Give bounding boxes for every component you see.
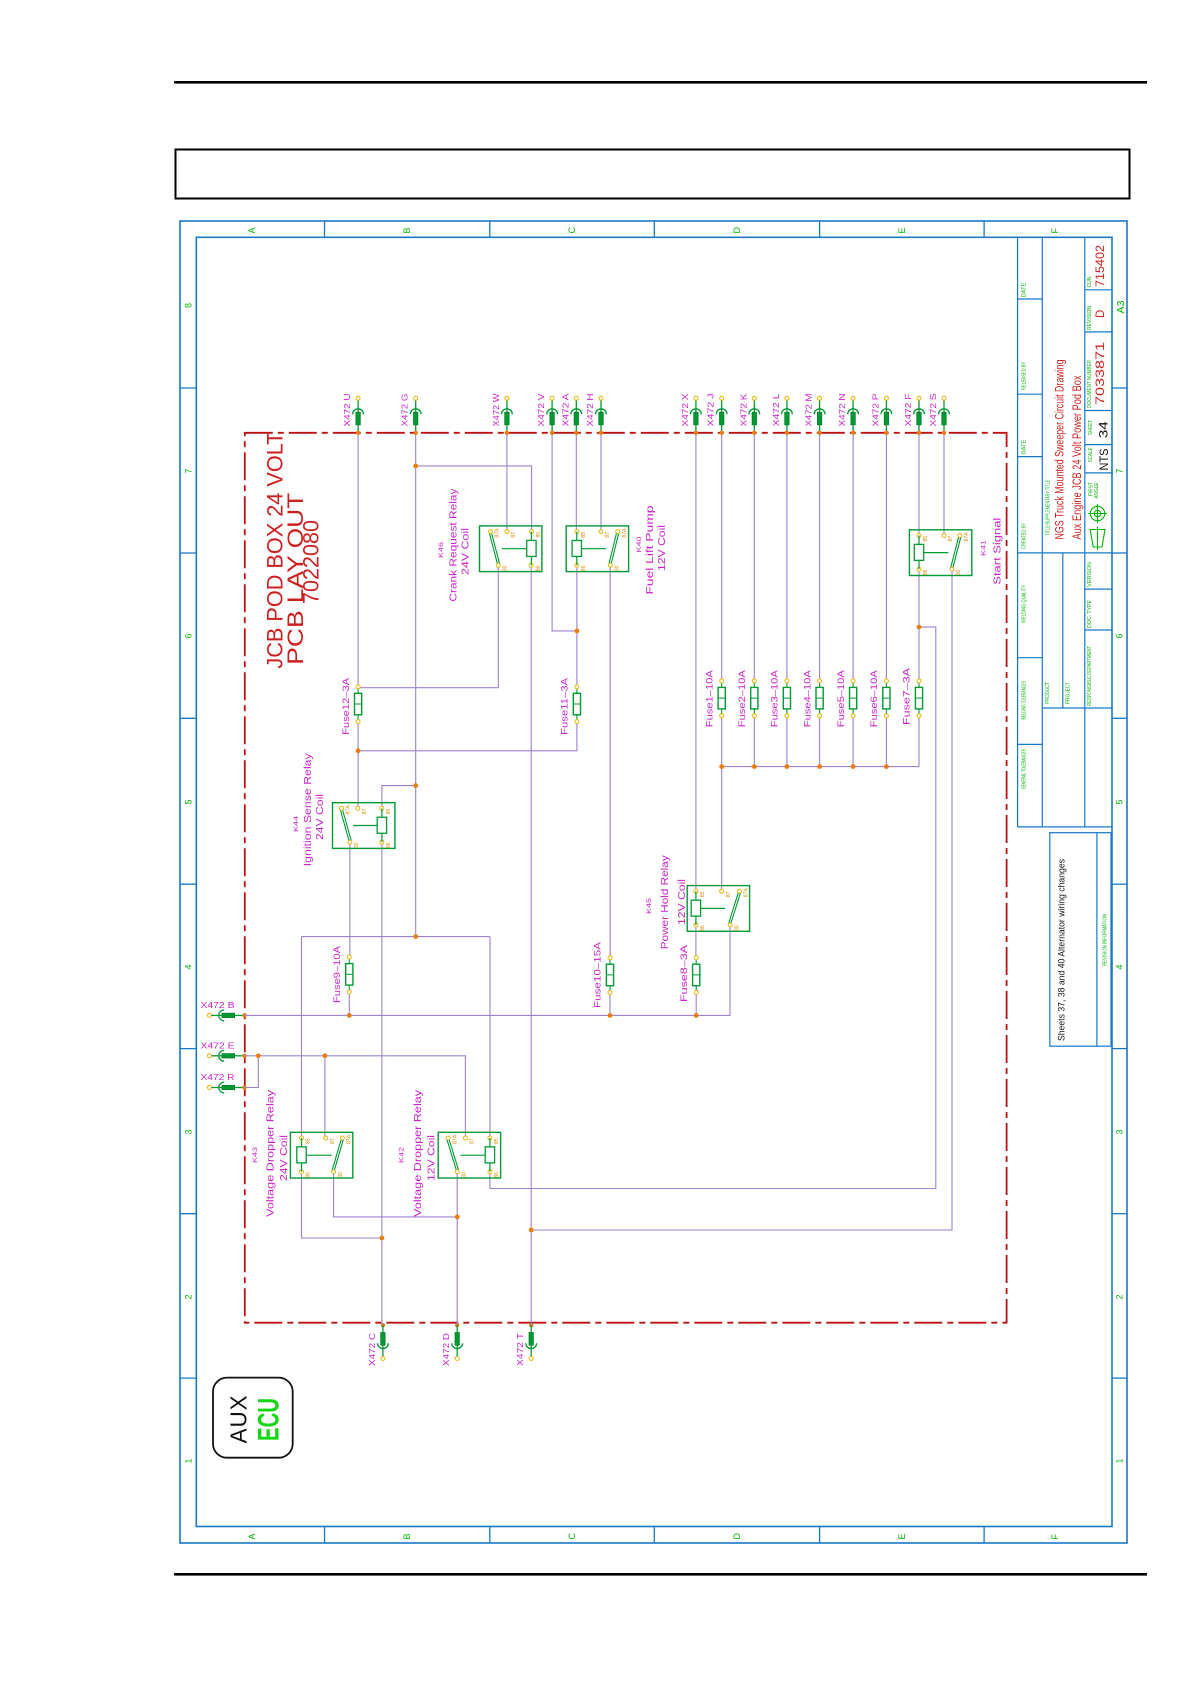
- svg-text:87: 87: [511, 532, 517, 538]
- svg-text:87: 87: [330, 1138, 336, 1144]
- connector X472 V: [537, 393, 557, 435]
- K42 contact: [447, 1140, 456, 1170]
- wire K43 pin 86 to X472 C net: [302, 1173, 382, 1239]
- svg-text:34: 34: [1096, 421, 1110, 438]
- connector X472 X: [681, 393, 701, 435]
- wire K45 pin 86 to Fuse8 top: [695, 925, 697, 958]
- wire X472 G vertical run: [415, 435, 417, 937]
- svg-text:Start Signal: Start Signal: [993, 518, 1004, 585]
- wire K41 pin 86 node to K42 pin 86: [490, 627, 936, 1188]
- wire node E tie to X472 R: [245, 1056, 259, 1088]
- wire node G down to K42 pin 85: [489, 937, 491, 1139]
- svg-text:X472 B: X472 B: [201, 1001, 235, 1010]
- connector X472 F: [904, 393, 924, 435]
- K44 contact: [341, 810, 349, 840]
- connector X472 D: [442, 1323, 462, 1366]
- K43 pins 85 87 87A 86 30: [300, 1136, 304, 1140]
- connector X472 B: [201, 1001, 247, 1021]
- svg-text:K43: K43: [252, 1146, 259, 1163]
- svg-text:K44: K44: [293, 815, 300, 832]
- svg-text:12V Coil: 12V Coil: [427, 1135, 438, 1181]
- svg-text:Voltage Dropper Relay: Voltage Dropper Relay: [413, 1090, 424, 1217]
- svg-text:3: 3: [184, 1129, 194, 1134]
- svg-text:Fuse2–10A: Fuse2–10A: [737, 669, 748, 727]
- svg-text:X472 X: X472 X: [681, 393, 690, 427]
- connector X472 N: [838, 393, 858, 435]
- svg-text:Ignition Sense Relay: Ignition Sense Relay: [303, 753, 314, 866]
- svg-text:5: 5: [184, 799, 194, 804]
- svg-text:87: 87: [726, 891, 732, 897]
- wire X472 A to K40 pin 85: [575, 435, 577, 532]
- fuse Fuse3 10A: [770, 669, 791, 727]
- svg-text:7: 7: [1115, 468, 1125, 473]
- outer border frame: [180, 221, 1127, 1543]
- wire K46 pin 30 to Fuse12 top: [358, 565, 498, 688]
- K40 coil: [576, 532, 578, 566]
- wire node G down to K43 pin 85: [301, 937, 303, 1139]
- svg-text:Fuse12–3A: Fuse12–3A: [341, 677, 352, 735]
- svg-text:X472 F: X472 F: [904, 393, 913, 426]
- svg-text:30: 30: [338, 1172, 344, 1178]
- wire K46 pin 86 down to X472 T: [530, 565, 532, 1325]
- relay K40 box: [566, 526, 628, 572]
- first angle projection symbol: [1088, 504, 1107, 550]
- svg-text:X472 A: X472 A: [561, 393, 570, 427]
- fuse Fuse8 3A: [679, 944, 700, 1002]
- svg-text:X472 V: X472 V: [537, 393, 546, 427]
- wire Fuse5 bottom to bus: [852, 713, 854, 766]
- svg-text:PRODUCT: PRODUCT: [1045, 681, 1051, 704]
- svg-text:30: 30: [615, 565, 621, 571]
- wire X472 F to K41 pin 85: [918, 435, 920, 536]
- wire X472 N to Fuse5: [852, 435, 854, 681]
- relay K42 box: [438, 1132, 500, 1178]
- svg-text:85: 85: [923, 536, 929, 542]
- wire node G horizontal distribution: [302, 936, 491, 938]
- K45 contact: [729, 893, 738, 923]
- svg-text:X472 E: X472 E: [201, 1041, 235, 1050]
- connector X472 R: [201, 1073, 247, 1093]
- wire X472 L to Fuse3: [786, 435, 788, 681]
- svg-text:85: 85: [581, 532, 587, 538]
- svg-text:85: 85: [536, 532, 542, 538]
- svg-text:Fuse1–10A: Fuse1–10A: [704, 669, 715, 727]
- svg-text:F: F: [1050, 228, 1060, 234]
- svg-text:Sheets 37, 38 and 40 Alternato: Sheets 37, 38 and 40 Alternator wiring c…: [1057, 859, 1067, 1041]
- connector X472 T: [516, 1323, 536, 1366]
- svg-text:86: 86: [535, 565, 541, 571]
- svg-text:Fuse8–3A: Fuse8–3A: [679, 944, 690, 1002]
- wire K41 pin 30 to X472 T net: [531, 569, 952, 1230]
- K46 contact: [490, 534, 498, 564]
- wire K40 pin 86 to Fuse11 top: [576, 565, 578, 687]
- relay K41 box: [909, 530, 971, 576]
- svg-text:6: 6: [1115, 633, 1125, 638]
- connector X472 K: [739, 393, 759, 435]
- svg-text:Fuel Lift Pump: Fuel Lift Pump: [645, 505, 656, 595]
- svg-text:Fuse11–3A: Fuse11–3A: [560, 677, 571, 735]
- wire Fuse10 bottom to node B: [609, 990, 611, 1015]
- wire Fuse6 bottom to bus: [885, 713, 887, 766]
- fuse Fuse12 3A: [341, 677, 362, 735]
- wire fuse output bus: [722, 766, 919, 768]
- svg-text:1: 1: [184, 1458, 194, 1463]
- connector X472 W: [492, 393, 512, 435]
- svg-text:ANGLE: ANGLE: [1094, 482, 1100, 498]
- svg-text:X472 T: X472 T: [516, 1333, 525, 1366]
- wire Fuse2 bottom to bus: [753, 713, 755, 766]
- svg-text:Fuse4–10A: Fuse4–10A: [802, 669, 813, 727]
- svg-text:F: F: [1050, 1534, 1060, 1540]
- svg-text:GENERAL TOLERANCES: GENERAL TOLERANCES: [1022, 749, 1028, 789]
- svg-text:SCALE: SCALE: [1088, 447, 1094, 462]
- relay K45 box: [687, 886, 749, 932]
- connector X472 M: [805, 393, 825, 435]
- svg-text:86: 86: [581, 565, 587, 571]
- svg-text:2: 2: [1115, 1294, 1125, 1299]
- svg-text:E: E: [897, 227, 907, 233]
- K45 coil: [695, 891, 697, 925]
- svg-text:A: A: [247, 1533, 257, 1539]
- svg-text:X472 J: X472 J: [707, 394, 716, 427]
- title block grid lines: [1018, 237, 1112, 1046]
- K44 coil: [381, 808, 383, 842]
- svg-text:87: 87: [605, 532, 611, 538]
- connector X472 U: [343, 393, 363, 435]
- svg-text:K40: K40: [636, 536, 643, 553]
- svg-text:WELDING TOLERANCES: WELDING TOLERANCES: [1022, 681, 1028, 720]
- svg-text:DOC. TYPE: DOC. TYPE: [1087, 600, 1093, 628]
- svg-text:X472 R: X472 R: [201, 1073, 235, 1082]
- wire Fuse3 bottom to bus: [786, 713, 788, 766]
- svg-text:D: D: [1095, 310, 1107, 318]
- svg-text:30: 30: [503, 565, 509, 571]
- AUX ECU block: [213, 1378, 293, 1458]
- wire X472 B bus to K45 pin 30: [245, 925, 731, 1015]
- connector X472 J: [707, 394, 727, 435]
- connector X472 S: [929, 394, 949, 435]
- svg-text:24V Coil: 24V Coil: [315, 794, 326, 840]
- svg-text:30: 30: [734, 925, 740, 931]
- svg-text:X472 H: X472 H: [586, 393, 595, 426]
- svg-text:E: E: [897, 1533, 907, 1539]
- svg-text:RELEASED BY: RELEASED BY: [1022, 362, 1028, 390]
- relay K43 box: [290, 1132, 352, 1178]
- connector X472 L: [772, 393, 792, 435]
- wire K44 pin 86 down to X472 C: [381, 841, 383, 1325]
- relay K46 box: [480, 526, 542, 572]
- svg-text:85: 85: [700, 891, 706, 897]
- svg-text:Fuse10–15A: Fuse10–15A: [593, 941, 604, 1008]
- svg-text:X472 W: X472 W: [492, 393, 501, 427]
- connector X472 G: [401, 394, 421, 435]
- svg-text:12V Coil: 12V Coil: [657, 525, 668, 571]
- svg-text:DATE: DATE: [1022, 439, 1028, 454]
- svg-text:4: 4: [184, 964, 194, 969]
- fuse Fuse9 10A: [332, 945, 353, 1003]
- svg-text:X472 L: X472 L: [772, 393, 781, 427]
- svg-text:X472 M: X472 M: [805, 393, 814, 426]
- connector X472 E: [201, 1041, 247, 1061]
- svg-text:2: 2: [184, 1294, 194, 1299]
- svg-text:87A: 87A: [347, 1134, 353, 1144]
- K40 contact: [609, 534, 616, 564]
- svg-text:X472 U: X472 U: [343, 393, 352, 426]
- svg-text:1: 1: [1115, 1458, 1125, 1463]
- svg-text:DATE: DATE: [1022, 282, 1028, 297]
- K41 pins 85 87 87A 86 30: [917, 534, 921, 538]
- page bottom rule: [174, 1573, 1147, 1576]
- K44 pins 87A 87 85 30 86: [340, 806, 344, 810]
- svg-text:3: 3: [1115, 1129, 1125, 1134]
- inner border frame: [196, 237, 1112, 1526]
- svg-text:Crank Request Relay: Crank Request Relay: [449, 489, 460, 602]
- svg-text:30: 30: [461, 1172, 467, 1178]
- svg-text:87: 87: [362, 809, 368, 815]
- connector X472 A: [561, 393, 581, 435]
- fuse Fuse10 15A: [593, 941, 614, 1008]
- svg-text:SHEET: SHEET: [1088, 420, 1094, 436]
- svg-text:Fuse6–10A: Fuse6–10A: [869, 669, 880, 727]
- svg-text:X472 N: X472 N: [838, 393, 847, 426]
- svg-text:Fuse3–10A: Fuse3–10A: [770, 669, 781, 727]
- svg-text:30: 30: [956, 569, 962, 575]
- wire K40 pin 30 to Fuse10 top: [609, 565, 611, 958]
- page top rule: [174, 81, 1147, 84]
- K46 pins 87A 87 85 30 86: [489, 530, 493, 534]
- svg-text:7: 7: [184, 468, 194, 473]
- K40 pins 85 87 87A 86 30: [575, 530, 579, 534]
- empty header box: [176, 150, 1130, 199]
- fuse Fuse7 3A: [902, 667, 923, 725]
- svg-text:87A: 87A: [622, 528, 628, 538]
- K41 coil: [918, 536, 920, 570]
- svg-text:X472 C: X472 C: [368, 1333, 377, 1366]
- svg-text:Fuse5–10A: Fuse5–10A: [836, 669, 847, 727]
- svg-text:87A: 87A: [495, 528, 501, 538]
- svg-text:VERSION: VERSION: [1087, 562, 1093, 587]
- connector X472 C: [368, 1323, 388, 1366]
- svg-text:AUX: AUX: [226, 1394, 252, 1443]
- svg-text:REVISION: REVISION: [1087, 306, 1093, 330]
- wire X472 H to K40 pin 87: [600, 435, 602, 532]
- svg-text:24V Coil: 24V Coil: [279, 1135, 290, 1181]
- svg-text:7022080: 7022080: [299, 520, 324, 604]
- svg-text:86: 86: [494, 1172, 500, 1178]
- svg-text:DOCUMENT NUMBER: DOCUMENT NUMBER: [1087, 360, 1093, 408]
- wire X472 M to Fuse4: [819, 435, 821, 681]
- svg-text:X472 S: X472 S: [929, 394, 938, 427]
- svg-text:K45: K45: [646, 897, 653, 914]
- svg-text:85: 85: [306, 1138, 312, 1144]
- svg-text:Voltage Dropper Relay: Voltage Dropper Relay: [266, 1090, 277, 1217]
- svg-text:4: 4: [1115, 964, 1125, 969]
- svg-text:B: B: [402, 1533, 412, 1539]
- svg-text:REVISION INFORMATION: REVISION INFORMATION: [1103, 914, 1109, 966]
- connector X472 P: [871, 394, 891, 435]
- svg-text:86: 86: [923, 569, 929, 575]
- svg-text:X472 D: X472 D: [442, 1333, 451, 1366]
- wire Fuse11 bottom to Fuse12 net: [358, 722, 577, 751]
- wire Fuse9 bottom to node B: [348, 990, 350, 1015]
- svg-text:12V Coil: 12V Coil: [677, 879, 688, 925]
- svg-text:NGS Truck Mounted Sweeper Circ: NGS Truck Mounted Sweeper Circuit Drawin…: [1054, 360, 1066, 540]
- JCB pod box boundary (red dash-dot): [245, 433, 1007, 1323]
- relay K44 box: [333, 803, 395, 849]
- svg-text:TITLE/SUPPLEMENTARY TITLE: TITLE/SUPPLEMENTARY TITLE: [1046, 479, 1052, 535]
- svg-text:A: A: [247, 227, 257, 233]
- svg-text:X472 G: X472 G: [401, 394, 410, 427]
- svg-text:85: 85: [494, 1138, 500, 1144]
- svg-text:24V Coil: 24V Coil: [461, 528, 472, 575]
- svg-text:PROJECT: PROJECT: [1066, 681, 1072, 704]
- svg-text:K46: K46: [438, 541, 445, 558]
- K45 pins 85 87 87A 86 30: [694, 889, 698, 893]
- wire Fuse4 bottom to bus: [819, 713, 821, 766]
- svg-text:85: 85: [386, 809, 392, 815]
- svg-text:86: 86: [386, 842, 392, 848]
- svg-text:CUN: CUN: [1087, 276, 1093, 287]
- svg-text:Fuse7–3A: Fuse7–3A: [902, 667, 913, 725]
- svg-text:87: 87: [948, 536, 954, 542]
- svg-text:Aux Engine JCB 24 Volt Power P: Aux Engine JCB 24 Volt Power Pod Box: [1072, 375, 1084, 539]
- wire Fuse12 bottom to K44 pin 87: [357, 722, 359, 808]
- connector X472 H: [586, 393, 606, 435]
- wire branch node G to K46 pin 85: [416, 466, 532, 532]
- svg-text:NTS: NTS: [1097, 449, 1111, 471]
- wire K42 pin 30 down to X472 D: [456, 1173, 458, 1326]
- wire Fuse8 bottom to node B: [695, 990, 697, 1015]
- svg-text:715402: 715402: [1095, 245, 1107, 287]
- svg-text:ECU: ECU: [253, 1398, 286, 1441]
- fuse Fuse2 10A: [737, 669, 758, 727]
- fuse Fuse5 10A: [836, 669, 857, 727]
- K42 pins 87A 87 85 30 86: [446, 1136, 450, 1140]
- svg-text:WELDING QUALITY: WELDING QUALITY: [1022, 585, 1028, 623]
- fuse Fuse6 10A: [869, 669, 890, 727]
- svg-text:8: 8: [184, 303, 194, 308]
- svg-text:86: 86: [306, 1172, 312, 1178]
- K43 coil: [301, 1138, 303, 1172]
- wire X472 J to Fuse1: [721, 435, 723, 681]
- svg-text:87A: 87A: [964, 532, 970, 542]
- fuse Fuse1 10A: [704, 669, 725, 727]
- wire X472 E bus to K42 pin 87: [245, 1056, 466, 1139]
- wire Fuse7 bottom to bus: [918, 713, 920, 766]
- svg-text:X472 K: X472 K: [739, 393, 748, 427]
- svg-text:A3: A3: [1116, 300, 1127, 313]
- svg-text:D: D: [732, 227, 742, 234]
- svg-text:C: C: [567, 1533, 577, 1540]
- svg-text:87: 87: [470, 1138, 476, 1144]
- wire K41 pin 86 to Fuse7 top: [918, 569, 920, 681]
- svg-text:87A: 87A: [744, 888, 750, 898]
- K41 contact: [951, 538, 959, 568]
- wire branch node G to K44 pin 85: [382, 786, 416, 808]
- wire X472 K to Fuse2: [753, 435, 755, 681]
- svg-text:K41: K41: [981, 539, 988, 556]
- wire K44 pin 30 to Fuse9 top: [349, 841, 351, 957]
- svg-text:CREATED BY: CREATED BY: [1022, 523, 1028, 549]
- svg-text:Fuse9–10A: Fuse9–10A: [332, 945, 343, 1003]
- K43 contact: [332, 1140, 341, 1170]
- svg-text:87A: 87A: [346, 805, 352, 815]
- svg-text:B: B: [402, 227, 412, 233]
- svg-text:RESPONSIBLE DEPARTMENT: RESPONSIBLE DEPARTMENT: [1087, 646, 1093, 706]
- svg-text:5: 5: [1115, 799, 1125, 804]
- wire X472 P to Fuse6: [885, 435, 887, 681]
- wire K43 pin 30 to X472 D net: [334, 1173, 458, 1217]
- svg-text:Power Hold Relay: Power Hold Relay: [660, 855, 671, 949]
- wire X472 V to Fuse11 node: [552, 435, 577, 631]
- svg-text:7033871: 7033871: [1095, 342, 1107, 405]
- wire node E to K43 pin 87: [324, 1056, 326, 1139]
- svg-text:D: D: [732, 1533, 742, 1540]
- wire Fuse1 bottom to K45 pin 87: [721, 713, 723, 891]
- wire X472 X to K45 pin 85: [695, 435, 697, 891]
- svg-text:87A: 87A: [452, 1134, 458, 1144]
- svg-text:C: C: [567, 227, 577, 234]
- K46 coil: [530, 532, 532, 566]
- fuse Fuse11 3A: [560, 677, 581, 735]
- wire X472 S to K41 pin 87: [943, 435, 945, 536]
- fuse Fuse4 10A: [802, 669, 823, 727]
- wire X472 U to Fuse12 top: [357, 435, 359, 687]
- svg-text:X472 P: X472 P: [871, 394, 880, 427]
- svg-text:86: 86: [700, 925, 706, 931]
- zone tick marks: [180, 221, 1127, 1543]
- svg-text:K42: K42: [399, 1146, 406, 1163]
- wire X472 W to K46 pin 87: [506, 435, 508, 532]
- svg-text:6: 6: [184, 633, 194, 638]
- K42 coil: [489, 1138, 491, 1172]
- svg-text:30: 30: [354, 842, 360, 848]
